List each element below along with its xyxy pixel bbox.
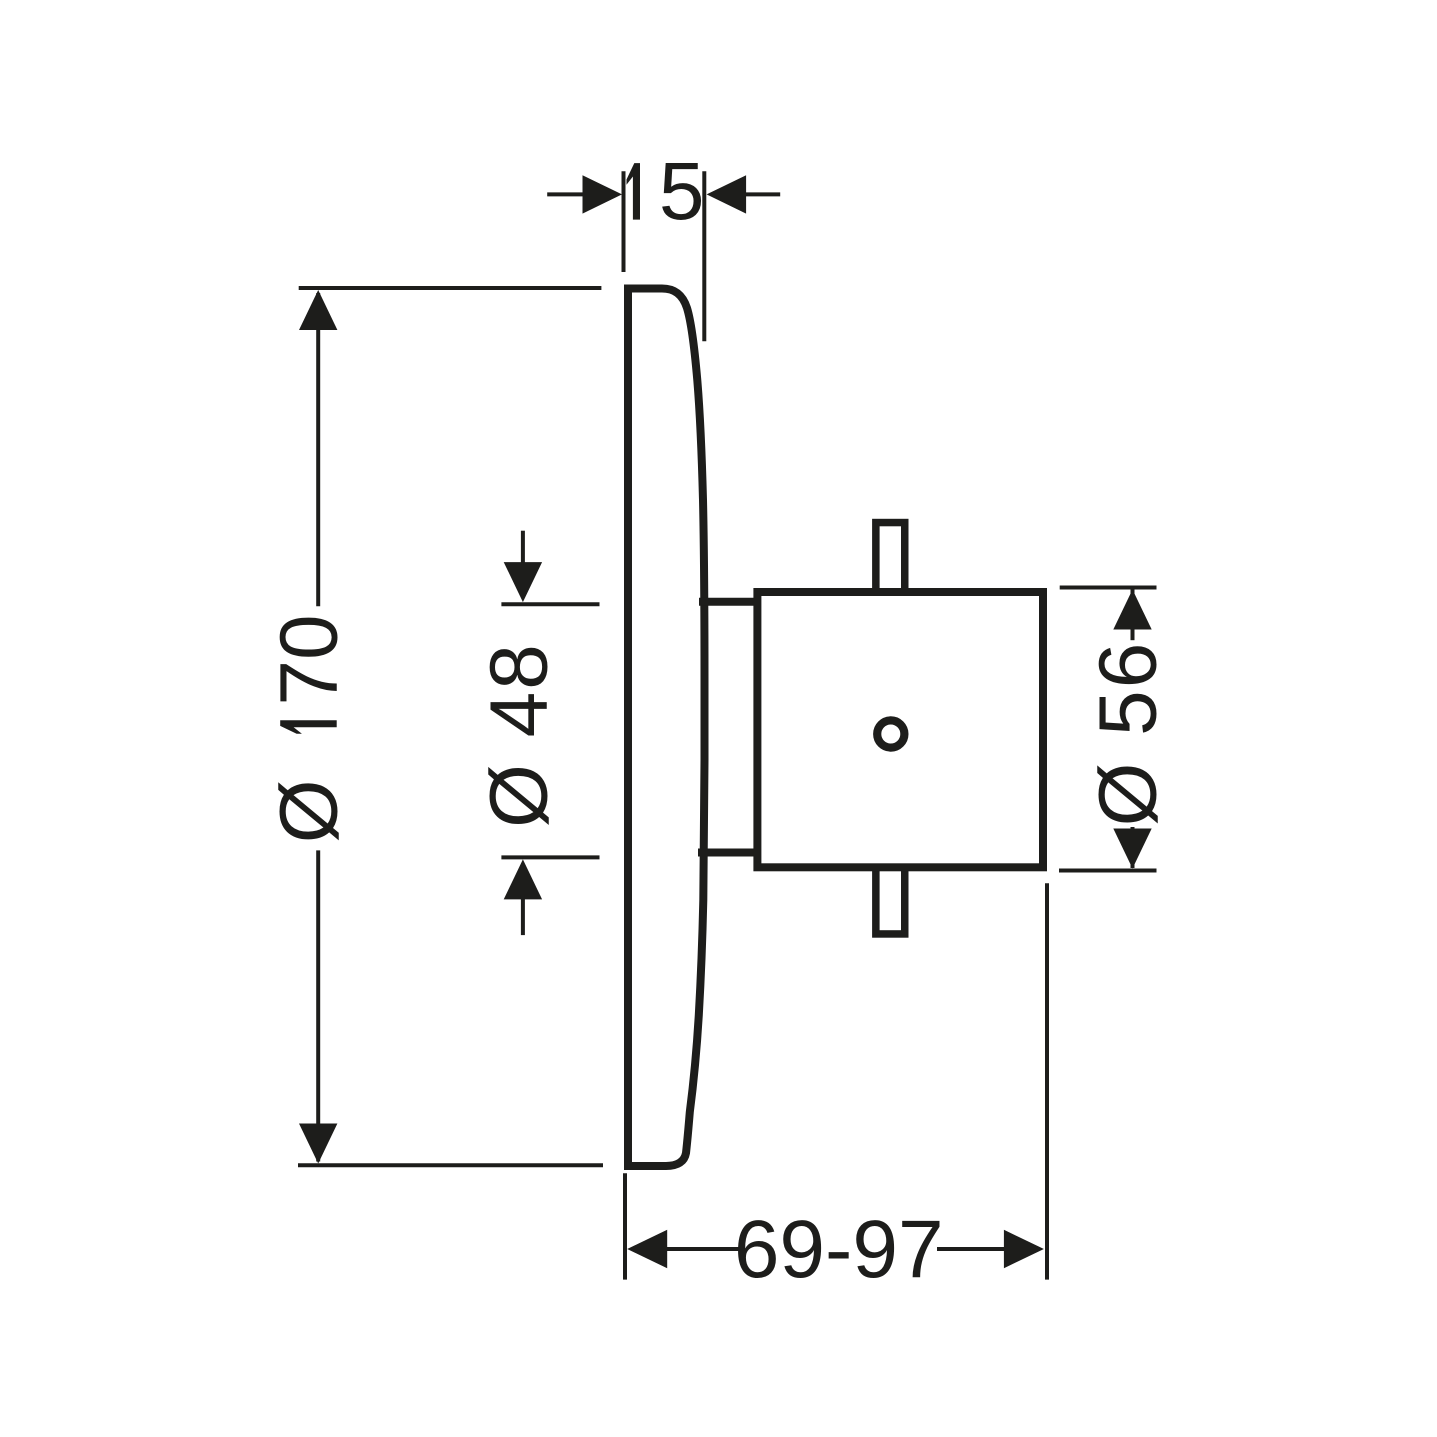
dim 69-97: dimension line right segment bbox=[937, 1247, 1008, 1251]
dim 15: right extension line bbox=[702, 171, 706, 341]
knob body (square, side view) bbox=[757, 592, 1043, 867]
svg-text:Ø: Ø bbox=[264, 779, 355, 843]
dim 170: top arrow bbox=[299, 290, 337, 330]
dim 56: top arrow bbox=[1113, 590, 1151, 630]
svg-text:Ø 56: Ø 56 bbox=[1083, 641, 1174, 827]
dim 48: top leader shaft bbox=[521, 531, 525, 567]
dim 48: bottom arrow bbox=[504, 859, 542, 899]
dim 48: top tick bbox=[501, 602, 599, 606]
escutcheon plate outline (side profile) bbox=[628, 289, 705, 1167]
dim 69-97: left arrow bbox=[627, 1230, 667, 1268]
dim 56: dimension line upper segment bbox=[1131, 590, 1135, 641]
dim 15: left arrow bbox=[583, 175, 623, 213]
dim 170: label bbox=[264, 614, 355, 843]
dim 15: label digit 1 bbox=[627, 163, 641, 220]
dim 48: top arrow bbox=[504, 562, 542, 602]
valve neck top line bbox=[699, 598, 761, 606]
dim 170: top extension line bbox=[299, 286, 602, 290]
knob top tab bbox=[876, 523, 905, 595]
svg-text:69-97: 69-97 bbox=[734, 1204, 944, 1295]
dim 170: bottom arrow bbox=[299, 1124, 337, 1164]
dim 69-97: right arrow bbox=[1004, 1230, 1044, 1268]
dim 48: bottom tick bbox=[501, 855, 599, 859]
valve neck bottom line bbox=[698, 849, 761, 857]
dim 48: bottom leader shaft bbox=[521, 895, 525, 935]
dim 15: right leader tail bbox=[745, 192, 780, 196]
dim 56: top extension line bbox=[1060, 586, 1157, 590]
dim 56: bottom arrow bbox=[1113, 829, 1151, 869]
dim 56: dimension line lower segment bbox=[1131, 827, 1135, 868]
dim 170: dimension line upper segment bbox=[316, 293, 320, 606]
dim 69-97: right extension line bbox=[1045, 883, 1049, 1279]
svg-text:70: 70 bbox=[264, 614, 355, 705]
knob bottom tab bbox=[876, 864, 905, 934]
dim 69-97: dimension line left segment bbox=[663, 1247, 741, 1251]
dim 69-97: left extension line bbox=[623, 1173, 627, 1279]
dim 56: bottom extension line bbox=[1059, 869, 1157, 873]
dim 15: right arrow bbox=[707, 175, 747, 213]
dim 15: left extension line bbox=[622, 171, 626, 272]
svg-text:Ø 48: Ø 48 bbox=[474, 642, 565, 828]
dim 15: left leader tail bbox=[547, 192, 584, 196]
dim 170: dimension line lower segment bbox=[316, 850, 320, 1161]
knob center dot bbox=[877, 720, 904, 747]
svg-text:5: 5 bbox=[659, 146, 705, 237]
dim 170: bottom extension line bbox=[298, 1163, 603, 1167]
